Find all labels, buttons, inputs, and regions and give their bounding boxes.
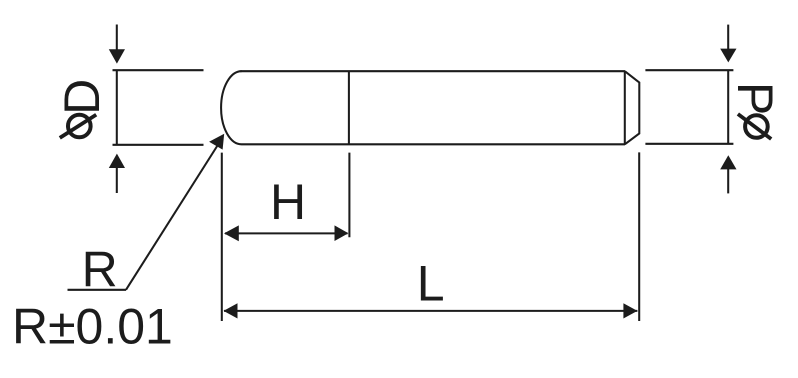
svg-text:H: H: [270, 174, 306, 230]
svg-text:L: L: [417, 256, 445, 312]
svg-text:D: D: [54, 79, 110, 115]
svg-text:R: R: [82, 241, 118, 297]
svg-text:R±0.01: R±0.01: [12, 298, 173, 354]
svg-text:P: P: [727, 82, 783, 115]
